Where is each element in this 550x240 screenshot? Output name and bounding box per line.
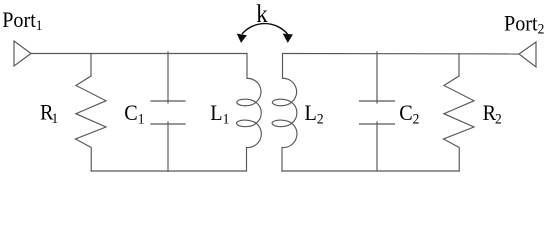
coupling arrow k arc — [242, 24, 288, 34]
port P1 symbol — [14, 41, 31, 66]
wire bottom-right rail — [282, 170, 459, 172]
svg-text:C2: C2 — [399, 100, 419, 128]
svg-text:R1: R1 — [40, 99, 58, 127]
capacitor C2 — [360, 52, 395, 171]
svg-text:R2: R2 — [483, 100, 502, 128]
svg-text:k: k — [256, 0, 268, 28]
wire right top — [283, 53, 519, 56]
svg-text:C1: C1 — [124, 100, 144, 128]
svg-text:L2: L2 — [305, 100, 324, 128]
capacitor C1 — [151, 52, 185, 171]
arrowhead left of coupling arrow — [237, 34, 247, 43]
wire bottom-left rail — [91, 170, 246, 172]
inductor L2 — [272, 54, 297, 172]
resistor R1 — [76, 54, 107, 172]
arrowhead right of coupling arrow — [283, 34, 293, 43]
inductor L1 — [236, 54, 261, 172]
port P2 symbol — [519, 42, 536, 67]
svg-text:L1: L1 — [210, 100, 229, 128]
svg-text:Port2: Port2 — [504, 11, 544, 38]
svg-text:Port1: Port1 — [2, 7, 42, 34]
resistor R2 — [444, 54, 475, 172]
wire left top — [31, 53, 247, 55]
